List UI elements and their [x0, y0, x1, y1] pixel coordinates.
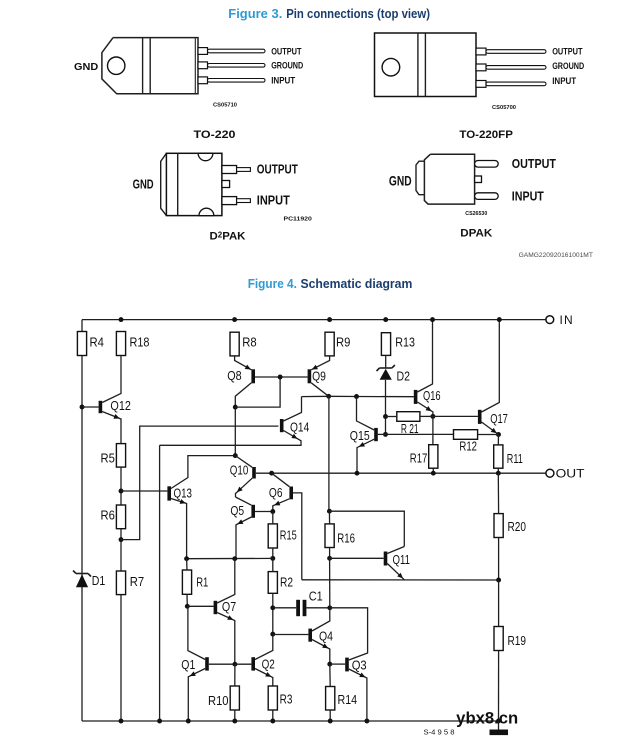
svg-text:Q15: Q15 — [350, 428, 370, 443]
svg-text:Schematic diagram: Schematic diagram — [301, 276, 413, 291]
svg-text:Q8: Q8 — [227, 368, 241, 383]
wire D2 anode down — [385, 380, 387, 435]
svg-text:OUTPUT: OUTPUT — [552, 47, 583, 57]
svg-text:Q2: Q2 — [262, 656, 275, 671]
svg-text:Figure 4.: Figure 4. — [248, 276, 297, 291]
svg-text:R1: R1 — [196, 575, 208, 590]
node R1 top junction — [184, 556, 189, 561]
pin middle stub (D2PAK) — [222, 181, 230, 188]
capacitor C1 — [273, 607, 296, 609]
node OUT rail junction at R11 — [496, 471, 501, 476]
svg-text:IN: IN — [560, 313, 574, 327]
diode D2 (zener) — [380, 367, 392, 369]
wire R7 to ground rail — [120, 595, 122, 721]
node R9 top — [327, 317, 332, 322]
package D2PAK top notch — [198, 153, 213, 160]
node Q10 base junction — [269, 471, 274, 476]
resistor R21 — [397, 412, 420, 422]
wire OUT rail — [272, 472, 546, 474]
node Q9 collector 4-way junction — [326, 394, 331, 399]
svg-text:S-4 9 5 8: S-4 9 5 8 — [424, 730, 455, 737]
package DPAK tab — [416, 161, 424, 195]
wire R17 to OUT rail — [432, 468, 434, 473]
transistor Q6 — [289, 487, 293, 500]
svg-text:ybx8.cn: ybx8.cn — [456, 709, 518, 727]
svg-text:R17: R17 — [410, 451, 428, 466]
node R20 bottom junction — [496, 578, 501, 583]
wire R5 to R6 — [120, 467, 122, 505]
pin INPUT lead (D2PAK) — [222, 197, 237, 205]
wire R19 to ground — [498, 651, 500, 722]
pin GROUND lead (TO-220) — [198, 62, 208, 69]
svg-text:OUTPUT: OUTPUT — [271, 46, 302, 56]
svg-text:TO-220: TO-220 — [194, 129, 236, 141]
svg-text:R15: R15 — [280, 528, 297, 543]
pin OUTPUT lead (TO-220) — [198, 48, 208, 55]
resistor R2 — [268, 572, 277, 594]
pin INPUT lead (TO-220FP) — [476, 81, 486, 88]
pin middle stub (DPAK) — [475, 176, 482, 183]
wire GND rail (bottom) — [82, 720, 499, 722]
ground symbol — [498, 721, 500, 731]
svg-text:Q7: Q7 — [222, 599, 236, 614]
wire Q16 emitter node to R17 — [432, 416, 434, 444]
svg-text:GND: GND — [389, 173, 412, 188]
node Q17 emitter junction — [496, 432, 501, 437]
transistor Q3 — [345, 658, 349, 672]
svg-text:Q13: Q13 — [174, 486, 193, 501]
svg-text:Q16: Q16 — [423, 388, 441, 403]
svg-text:R8: R8 — [242, 334, 256, 349]
svg-text:R 21: R 21 — [401, 421, 419, 436]
wire Q4 base — [273, 634, 309, 636]
wire R16 top to Q11 collector — [329, 511, 404, 546]
resistor R6 — [116, 505, 125, 529]
svg-text:R18: R18 — [130, 334, 150, 349]
resistor R11 — [494, 445, 503, 468]
svg-text:R6: R6 — [101, 508, 115, 523]
svg-text:R5: R5 — [101, 451, 115, 466]
svg-text:R11: R11 — [507, 451, 523, 466]
svg-text:GND: GND — [133, 177, 154, 191]
svg-text:R12: R12 — [459, 438, 477, 453]
svg-text:Q10: Q10 — [230, 462, 249, 477]
svg-text:D2: D2 — [397, 369, 411, 384]
resistor R9 — [325, 332, 334, 356]
resistor R14 — [326, 687, 335, 711]
wire Q16 emitter node to Q17 base — [433, 415, 478, 417]
pin INPUT lead (TO-220) — [198, 77, 208, 84]
svg-text:D1: D1 — [92, 573, 106, 588]
svg-text:GAMG220920161001MT: GAMG220920161001MT — [519, 252, 593, 259]
package D2PAK tab — [161, 153, 167, 215]
svg-text:R10: R10 — [208, 693, 229, 708]
transistor Q16 — [414, 390, 418, 404]
pin OUTPUT lead (DPAK) — [475, 161, 499, 168]
transistor Q1 — [205, 657, 209, 670]
wire left vertical rail — [81, 320, 83, 721]
node R16 bottom junction — [327, 556, 332, 561]
node Q12 base junction — [80, 405, 85, 410]
transistor Q12 — [99, 401, 103, 413]
pin OUTPUT lead (D2PAK) — [222, 166, 237, 174]
svg-text:INPUT: INPUT — [552, 76, 576, 86]
svg-text:GROUND: GROUND — [271, 61, 303, 71]
wire Q8 collector to base rail — [235, 377, 280, 407]
node R1 bottom junction — [185, 604, 190, 609]
wire Q6 base / Q11 emitter / R20 bottom line — [302, 579, 499, 581]
transistor Q4 — [308, 629, 312, 642]
node C1 right junction — [327, 605, 332, 610]
svg-text:Q1: Q1 — [181, 657, 195, 672]
resistor R19 — [494, 627, 503, 651]
node base rail junction — [278, 375, 283, 380]
svg-text:D2PAK: D2PAK — [210, 230, 247, 242]
transistor Q9 (PNP) — [308, 369, 312, 383]
svg-text:C1: C1 — [309, 589, 323, 604]
svg-text:R9: R9 — [336, 334, 350, 349]
wire R13 to D2 — [385, 355, 387, 368]
transistor Q14 — [280, 419, 284, 432]
resistor R18 — [116, 332, 125, 356]
svg-text:R7: R7 — [130, 574, 144, 589]
package D2PAK tab division line — [177, 153, 179, 215]
transistor Q5 — [251, 505, 255, 518]
svg-text:R14: R14 — [338, 692, 358, 707]
resistor R10 — [230, 686, 239, 710]
node R2 bottom / Q4 base junction — [270, 632, 275, 637]
package TO-220FP tab line 1 — [417, 33, 419, 97]
package TO-220 mounting hole — [108, 57, 125, 74]
resistor R5 — [116, 444, 125, 468]
svg-text:R20: R20 — [508, 519, 527, 534]
node R5/R6 junction (Q13 base) — [119, 489, 124, 494]
resistor R3 — [268, 686, 277, 710]
svg-text:PC11920: PC11920 — [284, 217, 312, 223]
node Q1/Q2 base junction — [232, 662, 237, 667]
terminal OUT — [546, 469, 554, 477]
wire R6 to R7 — [120, 529, 122, 571]
node R18 top — [119, 317, 124, 322]
svg-text:GND: GND — [74, 61, 99, 73]
node Q3 base junction — [327, 662, 332, 667]
svg-text:Q9: Q9 — [312, 369, 326, 384]
node R8 top — [232, 317, 237, 322]
svg-text:Q14: Q14 — [290, 420, 309, 435]
svg-text:Figure 3.: Figure 3. — [228, 6, 282, 21]
transistor Q11 — [384, 552, 388, 566]
wire Q8-Q9 base rail — [255, 376, 308, 378]
diode D1 (zener) — [76, 573, 88, 575]
transistor Q15 — [374, 428, 378, 441]
transistor Q7 — [214, 601, 218, 614]
package TO-220 body — [102, 38, 198, 94]
resistor R12 — [454, 430, 478, 440]
wire Q14 base net — [121, 426, 278, 539]
node Q13 collector / Q8 collector junction — [233, 453, 238, 458]
svg-text:Q5: Q5 — [230, 503, 244, 518]
package TO-220 tab line 1 — [142, 38, 144, 94]
svg-text:Q4: Q4 — [319, 629, 333, 644]
svg-text:Q6: Q6 — [269, 485, 283, 500]
package TO-220 right edge inner line — [194, 38, 196, 93]
node Q8 collector-base feedback tap — [233, 405, 238, 410]
svg-text:R13: R13 — [395, 334, 415, 349]
svg-text:Q17: Q17 — [490, 411, 508, 426]
svg-text:CS05710: CS05710 — [213, 103, 237, 109]
package TO-220 tab line 2 — [149, 38, 151, 94]
svg-text:INPUT: INPUT — [257, 193, 290, 207]
node OUT rail junction at Q15 emitter — [355, 471, 360, 476]
transistor Q10 — [252, 467, 256, 479]
node R13 top — [383, 317, 388, 322]
wire R12 to Q17 emitter node — [478, 434, 499, 436]
pin GROUND lead (TO-220FP) — [476, 64, 486, 71]
wire Q9 collector bus down to R16 — [328, 396, 330, 511]
package TO-220FP tab line 2 — [424, 33, 426, 97]
node R21 left junction — [383, 414, 388, 419]
node C1 left tap — [270, 605, 275, 610]
resistor R1 — [182, 570, 191, 594]
resistor R8 — [230, 332, 239, 356]
svg-text:INPUT: INPUT — [271, 76, 295, 86]
wire R16 bottom to C1 node — [329, 558, 331, 608]
resistor R4 — [77, 332, 86, 356]
node R6/R7 junction (Q14 base net) — [119, 537, 124, 542]
wire R12 line left segment — [386, 433, 454, 435]
wire Q14 emitter to ground rail — [159, 445, 161, 721]
package TO-220FP mounting hole — [382, 58, 400, 76]
wire R1/Q5 emitter line — [187, 557, 273, 559]
svg-text:DPAK: DPAK — [460, 228, 493, 240]
transistor Q2 — [251, 657, 255, 670]
resistor R20 — [494, 514, 503, 538]
svg-text:INPUT: INPUT — [512, 190, 544, 204]
pin OUTPUT lead (TO-220FP) — [476, 48, 486, 55]
terminal IN — [546, 316, 554, 324]
package D2PAK body — [166, 153, 222, 215]
package D2PAK bottom notch — [199, 208, 214, 215]
package DPAK body — [424, 154, 474, 204]
svg-text:R19: R19 — [508, 633, 527, 648]
svg-text:R16: R16 — [337, 531, 355, 546]
resistor R15 — [268, 524, 277, 548]
node Q5 base / Q6 emitter junction — [270, 509, 275, 514]
svg-text:TO-220FP: TO-220FP — [459, 129, 513, 141]
svg-text:Q11: Q11 — [393, 552, 411, 567]
wire IN rail (top) — [82, 319, 546, 321]
node R16 top junction — [327, 509, 332, 514]
svg-text:R3: R3 — [280, 692, 293, 707]
svg-text:GROUND: GROUND — [552, 61, 584, 71]
node Q17 collector top — [497, 317, 502, 322]
node Q15 base junction — [383, 432, 388, 437]
resistor R17 — [429, 445, 438, 469]
node R15 bottom / R2 top junction — [270, 556, 275, 561]
node Q5 emitter line junction — [232, 556, 237, 561]
pin INPUT lead (DPAK) — [475, 193, 499, 200]
svg-text:Q12: Q12 — [110, 398, 130, 413]
node OUT rail junction at R17 — [431, 471, 436, 476]
svg-text:CS05700: CS05700 — [492, 105, 516, 111]
node Q15 collector tap — [354, 394, 359, 399]
svg-text:R2: R2 — [280, 575, 293, 590]
resistor R7 — [116, 571, 125, 595]
svg-text:OUTPUT: OUTPUT — [257, 162, 298, 176]
node Q16 emitter junction — [430, 414, 435, 419]
svg-text:Q3: Q3 — [352, 658, 367, 673]
wire collector bus to Q16 base — [302, 395, 414, 397]
node ground rail end junction — [496, 719, 501, 724]
svg-text:OUT: OUT — [556, 466, 586, 480]
svg-text:Pin connections (top view): Pin connections (top view) — [286, 6, 430, 21]
transistor Q13 — [167, 486, 171, 500]
resistor R16 — [325, 524, 334, 548]
svg-text:OUTPUT: OUTPUT — [512, 157, 557, 171]
package TO-220FP body — [375, 33, 477, 97]
transistor Q8 (PNP) — [251, 369, 255, 383]
svg-text:R4: R4 — [90, 334, 104, 349]
svg-text:CS26530: CS26530 — [465, 211, 487, 217]
resistor R13 — [381, 333, 390, 356]
node Q16 collector top — [430, 317, 435, 322]
transistor Q17 — [478, 410, 482, 424]
